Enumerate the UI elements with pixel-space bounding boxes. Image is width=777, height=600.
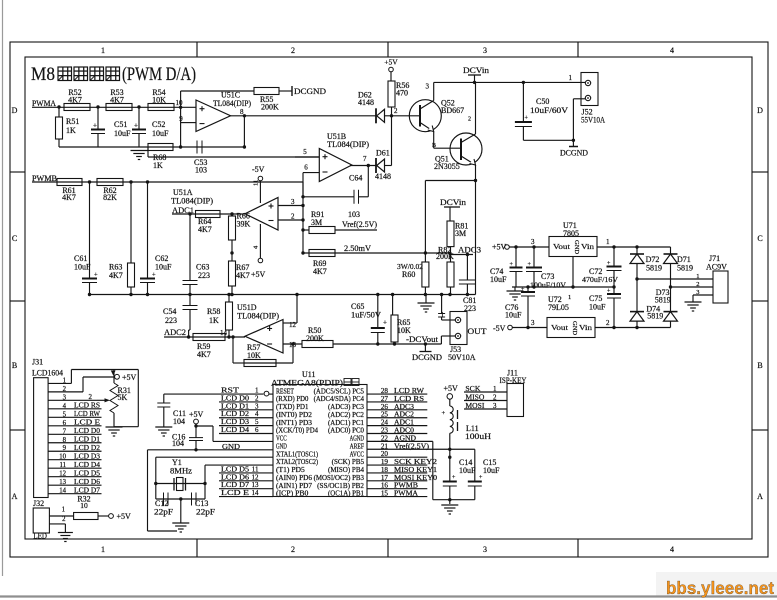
svg-text:223: 223	[165, 316, 177, 325]
svg-text:+: +	[152, 272, 156, 279]
svg-text:MISO KEY1: MISO KEY1	[394, 466, 437, 474]
svg-text:R58: R58	[207, 307, 220, 316]
svg-text:LCD1604: LCD1604	[32, 369, 63, 378]
svg-text:7: 7	[363, 155, 367, 163]
svg-text:10uF: 10uF	[155, 263, 172, 272]
svg-text:8MHz: 8MHz	[170, 467, 192, 476]
svg-text:1K: 1K	[66, 126, 76, 135]
svg-text:LCD RS: LCD RS	[74, 402, 100, 410]
svg-text:4: 4	[670, 545, 674, 554]
svg-text:LCD D6: LCD D6	[74, 478, 100, 486]
svg-text:10uF: 10uF	[505, 311, 522, 320]
svg-text:RST: RST	[221, 387, 240, 395]
svg-text:J32: J32	[33, 499, 44, 508]
svg-text:11: 11	[252, 465, 259, 473]
svg-text:C: C	[757, 234, 762, 243]
svg-text:2: 2	[89, 393, 93, 401]
svg-text:LCD D4: LCD D4	[221, 426, 249, 434]
svg-text:6: 6	[255, 426, 259, 434]
svg-text:(INT1) PD3: (INT1) PD3	[276, 419, 313, 427]
svg-text:3: 3	[531, 238, 535, 246]
svg-text:(TXD) PD1: (TXD) PD1	[276, 403, 309, 411]
svg-text:PWMA: PWMA	[394, 490, 419, 498]
svg-text:2: 2	[394, 107, 398, 115]
svg-text:LCD D6: LCD D6	[221, 473, 249, 481]
svg-text:22pF: 22pF	[154, 508, 174, 517]
svg-text:Vout: Vout	[551, 323, 569, 332]
svg-text:(SS/OC1B) PB2: (SS/OC1B) PB2	[317, 482, 364, 490]
svg-text:1: 1	[255, 387, 259, 395]
svg-text:3M: 3M	[455, 229, 466, 238]
svg-text:4K7: 4K7	[62, 193, 76, 202]
svg-text:-5V: -5V	[252, 165, 265, 174]
svg-text:104: 104	[173, 417, 185, 426]
svg-text:(AIN1) PD7: (AIN1) PD7	[276, 482, 313, 490]
svg-text:3: 3	[483, 46, 487, 55]
svg-text:4: 4	[670, 46, 674, 55]
svg-text:1K: 1K	[209, 316, 219, 325]
svg-text:3: 3	[426, 83, 430, 91]
svg-text:5819: 5819	[647, 312, 663, 321]
svg-text:1: 1	[696, 273, 699, 280]
svg-text:RESET: RESET	[276, 387, 295, 395]
svg-text:100uH: 100uH	[465, 432, 491, 441]
svg-text:+5V: +5V	[189, 410, 204, 419]
svg-text:LCD D0: LCD D0	[74, 427, 100, 435]
svg-text:Vref(2.5V): Vref(2.5V)	[342, 220, 377, 229]
svg-text:+5V: +5V	[117, 512, 132, 521]
svg-text:10uF: 10uF	[483, 466, 500, 475]
svg-text:3: 3	[531, 319, 535, 327]
svg-text:SCK KEY2: SCK KEY2	[394, 458, 437, 466]
svg-text:LCD D5: LCD D5	[74, 469, 100, 477]
svg-text:LCD D1: LCD D1	[221, 402, 249, 410]
svg-text:C51: C51	[114, 120, 127, 129]
svg-text:GND: GND	[222, 442, 241, 451]
svg-text:GND: GND	[276, 442, 287, 450]
svg-text:5: 5	[255, 418, 259, 426]
svg-text:12: 12	[289, 321, 297, 329]
svg-text:LCD D5: LCD D5	[221, 465, 249, 473]
svg-text:Vin: Vin	[581, 242, 594, 251]
svg-text:5: 5	[303, 148, 307, 156]
svg-text:4K7: 4K7	[197, 350, 211, 359]
svg-text:BD667: BD667	[441, 106, 464, 115]
svg-text:12: 12	[252, 473, 260, 481]
svg-text:C64: C64	[349, 174, 362, 183]
svg-text:(ADC5/SCL) PC5: (ADC5/SCL) PC5	[314, 387, 365, 395]
svg-text:LCD RW: LCD RW	[394, 387, 424, 395]
svg-text:+: +	[383, 319, 387, 327]
svg-text:4K7: 4K7	[109, 271, 123, 280]
svg-text:100uF/10V: 100uF/10V	[530, 281, 567, 290]
svg-text:1: 1	[568, 294, 571, 301]
svg-text:10uF: 10uF	[152, 129, 169, 138]
svg-text:2.50mV: 2.50mV	[344, 244, 371, 253]
svg-text:103: 103	[348, 210, 360, 219]
svg-text:M8: M8	[31, 64, 55, 85]
svg-text:DCVin: DCVin	[463, 66, 489, 75]
svg-text:4K7: 4K7	[198, 225, 212, 234]
svg-text:XTAL2(TOSC2): XTAL2(TOSC2)	[276, 458, 319, 466]
svg-text:1: 1	[62, 506, 65, 513]
svg-text:-DCVout: -DCVout	[406, 335, 439, 344]
svg-text:3: 3	[483, 545, 487, 554]
svg-text:14: 14	[252, 489, 260, 497]
svg-text:(ADC0) PC0: (ADC0) PC0	[328, 427, 364, 435]
svg-text:LCD D3: LCD D3	[221, 418, 249, 426]
svg-text:MOSI KEY0: MOSI KEY0	[394, 474, 437, 482]
svg-text:(ICP) PB0: (ICP) PB0	[276, 490, 309, 498]
svg-text:DCGND: DCGND	[412, 353, 442, 362]
svg-text:3M: 3M	[311, 218, 322, 227]
svg-text:AGND: AGND	[394, 434, 416, 442]
svg-text:GND: GND	[573, 240, 580, 254]
svg-text:2N3055: 2N3055	[434, 162, 460, 171]
svg-text:+: +	[94, 272, 98, 279]
svg-text:LCD E: LCD E	[74, 419, 101, 427]
svg-text:GND: GND	[571, 321, 578, 335]
svg-text:LCD D3: LCD D3	[74, 453, 100, 461]
svg-text:VCC: VCC	[276, 435, 287, 443]
svg-text:39K: 39K	[237, 220, 251, 229]
svg-text:9: 9	[179, 115, 183, 123]
svg-text:1K: 1K	[153, 161, 163, 170]
svg-text:10K: 10K	[397, 326, 411, 335]
svg-text:(T1) PD5: (T1) PD5	[276, 466, 305, 474]
svg-text:200K: 200K	[436, 252, 454, 261]
svg-text:1uF/50V: 1uF/50V	[351, 311, 381, 320]
svg-text:B: B	[432, 143, 436, 149]
svg-text:104: 104	[172, 439, 184, 448]
svg-text:+5V: +5V	[251, 270, 266, 279]
svg-text:2: 2	[606, 319, 610, 327]
svg-text:1: 1	[606, 238, 610, 246]
svg-text:LCD D7: LCD D7	[74, 486, 100, 494]
svg-text:(INT0) PD2: (INT0) PD2	[276, 411, 313, 419]
svg-text:10uF/60V: 10uF/60V	[530, 106, 568, 115]
svg-text:LCD D4: LCD D4	[74, 461, 100, 469]
svg-text:200K: 200K	[306, 334, 324, 343]
svg-text:10: 10	[80, 501, 88, 510]
svg-text:(MISO) PB4: (MISO) PB4	[328, 466, 364, 474]
svg-text:ADC2: ADC2	[394, 411, 414, 419]
svg-text:4148: 4148	[358, 98, 374, 107]
svg-text:(ADC3) PC3: (ADC3) PC3	[328, 403, 364, 411]
svg-text:4: 4	[255, 410, 259, 418]
svg-text:OUT: OUT	[468, 326, 488, 336]
svg-text:3: 3	[255, 402, 259, 410]
svg-text:(XCK/T0) PD4: (XCK/T0) PD4	[276, 427, 318, 435]
svg-text:A: A	[757, 492, 763, 501]
svg-text:223: 223	[198, 271, 210, 280]
svg-text:Vref(2.5V): Vref(2.5V)	[394, 442, 430, 450]
svg-text:10uF: 10uF	[459, 466, 476, 475]
svg-text:79L05: 79L05	[548, 303, 569, 312]
svg-text:LCD D7: LCD D7	[221, 481, 249, 489]
svg-text:10K: 10K	[152, 96, 166, 105]
svg-text:PWMB: PWMB	[394, 482, 418, 490]
svg-text:3: 3	[696, 289, 699, 296]
svg-text:22pF: 22pF	[196, 508, 216, 517]
svg-text:LCD RW: LCD RW	[74, 410, 100, 418]
svg-text:5819: 5819	[646, 264, 662, 273]
svg-text:5819: 5819	[677, 264, 693, 273]
svg-text:LCD D0: LCD D0	[221, 394, 249, 402]
svg-text:2: 2	[291, 545, 295, 554]
svg-text:AVCC: AVCC	[350, 450, 365, 458]
svg-text:4K7: 4K7	[236, 271, 250, 280]
svg-text:PWMA: PWMA	[32, 99, 56, 108]
svg-text:TL084(DIP): TL084(DIP)	[171, 197, 213, 206]
svg-text:1: 1	[101, 46, 105, 55]
svg-text:(ADC4/SDA) PC4: (ADC4/SDA) PC4	[314, 395, 365, 403]
svg-text:+5V: +5V	[384, 58, 398, 67]
svg-text:1: 1	[441, 311, 445, 319]
svg-text:DCGND: DCGND	[560, 149, 588, 158]
svg-text:LCD E: LCD E	[221, 489, 250, 497]
svg-text:TL084(DIP): TL084(DIP)	[237, 312, 279, 321]
svg-text:470uF/16V: 470uF/16V	[582, 275, 619, 284]
svg-text:(MOSI/OC2) PB3: (MOSI/OC2) PB3	[314, 474, 365, 482]
svg-text:ADC3: ADC3	[458, 246, 481, 255]
svg-text:4148: 4148	[375, 172, 391, 181]
svg-text:2: 2	[62, 516, 66, 523]
svg-text:R51: R51	[66, 117, 79, 126]
svg-text:LCD RS: LCD RS	[394, 395, 424, 403]
svg-text:AREF: AREF	[350, 442, 364, 450]
svg-text:2: 2	[291, 213, 295, 221]
svg-text:B: B	[12, 361, 17, 370]
svg-text:ADC1: ADC1	[394, 419, 414, 427]
svg-text:6: 6	[304, 164, 308, 172]
svg-text:AGND: AGND	[350, 435, 364, 443]
svg-text:D: D	[757, 106, 763, 115]
svg-text:1: 1	[569, 74, 573, 82]
svg-text:10K: 10K	[247, 351, 261, 360]
svg-text:+: +	[93, 122, 97, 130]
svg-text:+5V: +5V	[122, 373, 137, 382]
svg-text:5K: 5K	[118, 393, 128, 402]
svg-text:11: 11	[253, 180, 260, 186]
svg-text:10uF: 10uF	[74, 263, 91, 272]
svg-text:2: 2	[291, 46, 295, 55]
svg-text:+: +	[442, 410, 446, 417]
svg-text:ADC3: ADC3	[394, 403, 414, 411]
svg-text:DCGND: DCGND	[294, 87, 326, 96]
svg-text:82K: 82K	[103, 193, 117, 202]
svg-text:470: 470	[396, 89, 408, 98]
svg-text:2: 2	[468, 117, 471, 123]
svg-text:C: C	[12, 234, 17, 243]
svg-text:LCD D2: LCD D2	[74, 444, 100, 452]
svg-text:4K7: 4K7	[110, 96, 124, 105]
svg-text:+5V: +5V	[444, 384, 459, 393]
svg-text:LCD D2: LCD D2	[221, 410, 249, 418]
svg-text:4K7: 4K7	[313, 267, 327, 276]
svg-text:2: 2	[255, 394, 259, 402]
svg-text:AC9V: AC9V	[706, 263, 727, 272]
svg-text:(RXD) PD0: (RXD) PD0	[276, 395, 309, 403]
svg-text:J31: J31	[32, 358, 43, 367]
svg-text:103: 103	[195, 166, 207, 175]
svg-text:B: B	[757, 361, 762, 370]
svg-text:4K7: 4K7	[68, 96, 82, 105]
svg-text:10: 10	[176, 99, 184, 107]
svg-text:50V10A: 50V10A	[448, 353, 476, 362]
svg-text:C50: C50	[536, 97, 549, 106]
svg-text:-5V: -5V	[493, 324, 506, 333]
svg-text:(PWM D/A): (PWM D/A)	[122, 64, 196, 85]
svg-text:(ADC1) PC1: (ADC1) PC1	[328, 419, 364, 427]
svg-text:XTAL1(TOSC1): XTAL1(TOSC1)	[276, 450, 319, 458]
svg-text:5819: 5819	[655, 296, 671, 305]
svg-text:200K: 200K	[261, 103, 279, 112]
svg-text:ATMEGA8(PDIP): ATMEGA8(PDIP)	[271, 379, 343, 388]
svg-text:10uF: 10uF	[114, 129, 131, 138]
svg-text:R60: R60	[402, 270, 415, 279]
svg-text:ADC0: ADC0	[394, 427, 414, 435]
svg-text:(OC1A) PB1: (OC1A) PB1	[328, 490, 364, 498]
svg-text:2: 2	[696, 281, 699, 288]
svg-text:ADC2: ADC2	[164, 328, 186, 337]
svg-text:1: 1	[101, 545, 105, 554]
svg-text:13: 13	[252, 481, 260, 489]
svg-text:(SCK) PB5: (SCK) PB5	[332, 458, 365, 466]
svg-text:(AIN0) PD6: (AIN0) PD6	[276, 474, 313, 482]
svg-text:Vout: Vout	[553, 242, 571, 251]
svg-text:3: 3	[291, 198, 295, 206]
svg-text:LED: LED	[33, 531, 47, 540]
svg-text:+: +	[134, 122, 138, 130]
svg-text:LCD D1: LCD D1	[74, 436, 100, 444]
svg-text:10uF: 10uF	[589, 303, 606, 312]
svg-text:D61: D61	[376, 149, 390, 158]
svg-text:10uF: 10uF	[490, 275, 507, 284]
svg-text:55V10A: 55V10A	[581, 116, 605, 125]
svg-text:C52: C52	[152, 120, 165, 129]
svg-text:(ADC2) PC2: (ADC2) PC2	[328, 411, 364, 419]
svg-text:bbs.yleee.net: bbs.yleee.net	[666, 578, 774, 598]
svg-text:D: D	[12, 106, 18, 115]
svg-text:TL084(DIP): TL084(DIP)	[327, 140, 369, 149]
svg-text:DCVin: DCVin	[440, 198, 466, 207]
svg-text:Vin: Vin	[579, 323, 592, 332]
svg-text:C54: C54	[163, 307, 176, 316]
svg-text:TL084(DIP): TL084(DIP)	[213, 99, 251, 108]
svg-text:A: A	[12, 492, 18, 501]
